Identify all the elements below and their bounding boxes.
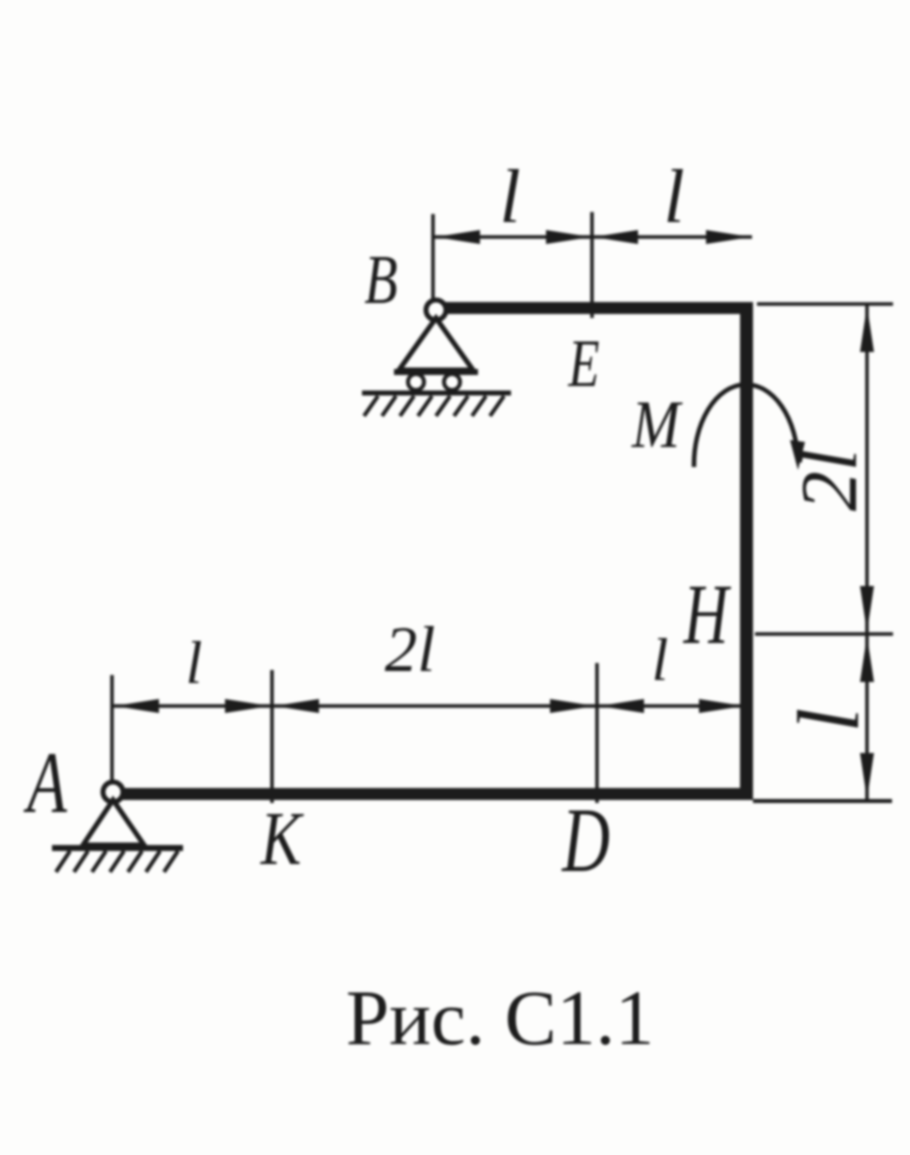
moment M arrowhead: [790, 440, 805, 470]
svg-text:l: l: [186, 630, 203, 696]
arrow right end top dim: [706, 230, 751, 244]
arrow K-left bottom dim: [225, 699, 270, 713]
bottom dimension line: [112, 704, 740, 708]
svg-text:l: l: [652, 627, 669, 693]
arrow up below H right dim: [860, 636, 874, 682]
arrow D-right bottom dim: [599, 699, 644, 713]
arrow K-right bottom dim: [274, 699, 319, 713]
svg-text:Рис. С1.1: Рис. С1.1: [346, 974, 654, 1061]
arrow right end bottom dim: [699, 699, 744, 713]
beam vertical member (corner to corner): [740, 302, 753, 800]
svg-text:l: l: [663, 155, 684, 239]
support B ground line: [362, 391, 511, 396]
support B triangle: [399, 318, 473, 370]
extension line at D: [595, 663, 599, 803]
top dimension line: [433, 235, 752, 239]
svg-text:2l: 2l: [385, 614, 436, 686]
arrow mid-left top dim: [546, 230, 591, 244]
arrow mid-right top dim: [593, 230, 638, 244]
pin support A circle: [103, 782, 123, 802]
svg-text:l: l: [499, 155, 520, 239]
arrow left end top dim: [435, 230, 480, 244]
svg-text:D: D: [561, 791, 610, 892]
arrow D-left bottom dim: [550, 699, 595, 713]
svg-text:B: B: [364, 241, 397, 319]
svg-text:E: E: [568, 326, 600, 402]
arrow down at bottom right dim: [860, 753, 874, 799]
extension line at A: [110, 675, 114, 784]
svg-text:l: l: [781, 708, 878, 732]
support A triangle: [83, 800, 144, 845]
beam BE (top horizontal member): [443, 302, 753, 314]
support B roller left: [408, 374, 424, 390]
support A hatching: [56, 851, 178, 872]
extension line top right: [757, 302, 893, 306]
svg-text:H: H: [683, 567, 732, 662]
support B hatching: [364, 396, 504, 416]
pin support B circle: [426, 300, 446, 320]
extension line at H level: [755, 632, 893, 636]
svg-text:K: K: [260, 797, 304, 881]
svg-text:M: M: [631, 387, 683, 462]
moment M arc: [694, 384, 798, 467]
extension line at B: [431, 214, 435, 300]
support A ground line: [52, 845, 183, 851]
support B base line: [394, 369, 478, 375]
arrow up at top right dim: [860, 306, 874, 352]
arrow left end bottom dim: [114, 699, 159, 713]
extension line at E: [590, 212, 594, 318]
arrow down at H right dim: [860, 586, 874, 632]
right dimension line: [865, 304, 869, 801]
extension line at K: [270, 670, 274, 803]
support B roller right: [444, 374, 460, 390]
extension line bottom right: [753, 799, 892, 803]
svg-text:A: A: [23, 734, 68, 832]
svg-text:2l: 2l: [786, 449, 874, 511]
beam AD (bottom horizontal member): [120, 788, 753, 800]
